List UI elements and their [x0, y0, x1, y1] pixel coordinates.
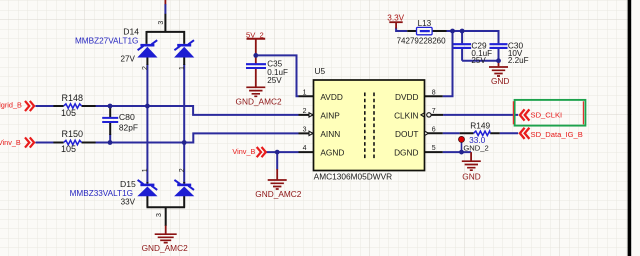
- svg-text:105: 105: [61, 144, 76, 154]
- svg-text:2: 2: [142, 66, 149, 70]
- svg-text:AVDD: AVDD: [320, 92, 342, 102]
- svg-text:AINP: AINP: [320, 111, 340, 121]
- svg-text:MMBZ33VALT1G: MMBZ33VALT1G: [70, 189, 133, 198]
- svg-text:AINN: AINN: [320, 129, 340, 139]
- svg-text:82pF: 82pF: [119, 122, 138, 132]
- svg-text:7: 7: [432, 108, 436, 115]
- svg-text:SD_Data_IG_B: SD_Data_IG_B: [531, 130, 583, 139]
- svg-text:5V_2: 5V_2: [246, 30, 264, 39]
- svg-text:MMBZ27VALT1G: MMBZ27VALT1G: [75, 36, 138, 45]
- svg-text:3.3V: 3.3V: [387, 13, 404, 22]
- svg-text:R148: R148: [62, 93, 84, 103]
- svg-text:R150: R150: [62, 129, 84, 139]
- svg-text:D14: D14: [123, 26, 139, 36]
- svg-text:4: 4: [303, 145, 307, 152]
- svg-text:2: 2: [303, 108, 307, 115]
- svg-text:GND_AMC2: GND_AMC2: [255, 189, 301, 199]
- svg-text:Ilgrid_B: Ilgrid_B: [0, 101, 22, 110]
- svg-text:GND: GND: [491, 76, 509, 86]
- svg-text:C35: C35: [267, 59, 282, 68]
- svg-text:3: 3: [158, 21, 165, 25]
- svg-text:DVDD: DVDD: [395, 92, 419, 102]
- svg-text:Vinv_B: Vinv_B: [0, 138, 21, 147]
- svg-text:5: 5: [432, 145, 436, 152]
- svg-text:AMC1306M05DWVR: AMC1306M05DWVR: [314, 172, 393, 181]
- svg-text:25V: 25V: [267, 76, 282, 85]
- svg-text:2.2uF: 2.2uF: [508, 56, 529, 65]
- svg-text:GND_2: GND_2: [463, 144, 488, 153]
- svg-text:27V: 27V: [120, 54, 135, 63]
- svg-text:1: 1: [303, 89, 307, 96]
- svg-text:D15: D15: [120, 179, 136, 189]
- svg-text:6: 6: [432, 126, 436, 133]
- svg-text:AGND: AGND: [320, 148, 344, 158]
- svg-text:CLKIN: CLKIN: [394, 111, 418, 121]
- svg-text:105: 105: [61, 108, 76, 118]
- svg-text:3: 3: [156, 213, 163, 217]
- svg-text:L13: L13: [418, 19, 432, 28]
- svg-text:C80: C80: [119, 112, 135, 122]
- svg-text:GND_AMC2: GND_AMC2: [236, 96, 282, 106]
- svg-text:GND: GND: [462, 172, 480, 182]
- svg-text:74279228260: 74279228260: [397, 36, 446, 46]
- svg-text:3: 3: [303, 126, 307, 133]
- svg-text:R149: R149: [470, 120, 490, 130]
- svg-text:8: 8: [432, 89, 436, 96]
- svg-text:Vinv_B: Vinv_B: [232, 147, 255, 156]
- svg-text:33V: 33V: [121, 197, 136, 206]
- svg-text:DGND: DGND: [394, 148, 418, 158]
- svg-text:U5: U5: [315, 66, 326, 76]
- svg-text:1: 1: [142, 168, 149, 172]
- svg-text:GND_AMC2: GND_AMC2: [142, 243, 188, 253]
- svg-text:1: 1: [179, 66, 186, 70]
- svg-text:33.0: 33.0: [469, 135, 486, 145]
- svg-text:25V: 25V: [471, 56, 486, 65]
- svg-text:SD_CLKI: SD_CLKI: [531, 111, 563, 120]
- svg-text:DOUT: DOUT: [395, 129, 419, 139]
- svg-text:2: 2: [179, 168, 186, 172]
